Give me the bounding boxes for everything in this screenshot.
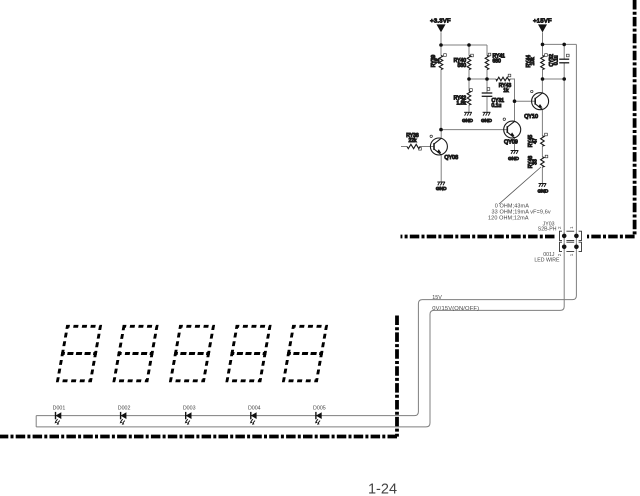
- board outline border right vertical: [633, 0, 637, 237]
- wire CY32 stubs: [563, 44, 565, 59]
- wire CY31 stubs: [486, 79, 488, 93]
- wire +3.3V rail: [441, 44, 487, 46]
- wire QY08 collector: [440, 130, 442, 139]
- svg-text:GND: GND: [462, 118, 473, 124]
- svg-text:+15VF: +15VF: [533, 19, 552, 25]
- board outline border mid vertical: [395, 316, 399, 437]
- power +15VF: [533, 19, 552, 33]
- node dot CY32 bottom: [562, 77, 566, 81]
- wire LED bus left edge: [35, 416, 37, 427]
- callout text resistor options: [488, 203, 551, 221]
- svg-text:D001: D001: [53, 406, 66, 412]
- wire RY40 stubs: [468, 45, 470, 56]
- ground below QY08: [436, 182, 447, 192]
- ground below CY31: [481, 112, 492, 124]
- diode D005: [313, 406, 326, 425]
- display digit 1: [58, 326, 101, 381]
- display digit 5: [284, 326, 327, 381]
- svg-text:33: 33: [532, 159, 538, 165]
- wire +15V rail: [543, 43, 577, 45]
- resistor RY44: [526, 54, 547, 70]
- seven-segment displays: [58, 326, 327, 381]
- svg-text:1: 1: [569, 226, 574, 229]
- pin 1 001J: [574, 245, 579, 250]
- diode D004: [248, 406, 261, 425]
- svg-text:47: 47: [532, 138, 538, 144]
- svg-text:560: 560: [458, 63, 467, 69]
- wire QY10 emitter chain: [541, 109, 543, 136]
- LED diodes row: [53, 406, 326, 425]
- resistor RY43: [496, 74, 511, 94]
- connector 001J: [534, 240, 581, 263]
- wire pin1 to 15V run: [36, 236, 576, 416]
- pin 2 JY03: [562, 234, 567, 239]
- resistor RY42: [454, 89, 473, 107]
- wire RY39 top stub: [440, 45, 442, 56]
- display digit 4: [227, 326, 270, 381]
- svg-text:1k: 1k: [503, 88, 509, 94]
- callout line for RY46 options: [499, 167, 541, 204]
- svg-text:QY10: QY10: [524, 114, 538, 120]
- wire QY10 collector: [541, 79, 543, 93]
- node dot 15V rail / CY32: [562, 43, 566, 47]
- node dot QY10 collector rail: [541, 77, 545, 81]
- pin 1 JY03: [574, 234, 579, 239]
- wire QY09 emitter to ground: [514, 138, 516, 151]
- svg-text:0V/15V(ON/OFF): 0V/15V(ON/OFF): [432, 306, 479, 312]
- board outline border bottom horizontal: [0, 435, 397, 439]
- diode D003: [183, 406, 196, 425]
- node dot 3.3V rail / RY39: [439, 43, 443, 47]
- svg-text:GND: GND: [508, 156, 519, 162]
- wire rail B: [469, 78, 496, 80]
- board outline border horizontal right of connector: [587, 235, 635, 239]
- transistor QY09: [503, 118, 521, 145]
- wire QY10 base: [515, 100, 536, 102]
- svg-text:D004: D004: [248, 406, 261, 412]
- wire RY44 stubs: [542, 44, 544, 55]
- svg-text:1: 1: [569, 253, 574, 256]
- svg-text:0.1u: 0.1u: [492, 103, 502, 109]
- junction dots: [439, 43, 566, 132]
- node dot C QY10 base: [513, 99, 517, 103]
- svg-text:680: 680: [493, 58, 502, 64]
- svg-text:QY09: QY09: [504, 139, 518, 145]
- diode D001: [53, 406, 66, 425]
- resistor RY40: [454, 54, 474, 69]
- resistor RY39: [431, 54, 447, 70]
- wire RY43 right, down to node C: [510, 79, 515, 121]
- transistor QY10: [524, 90, 548, 120]
- svg-text:D002: D002: [118, 406, 131, 412]
- resistor RY38: [406, 133, 421, 150]
- svg-text:2: 2: [557, 226, 562, 229]
- connector JY03: [538, 221, 582, 242]
- svg-text:1k: 1k: [435, 58, 441, 64]
- node dot 15V rail / RY44: [541, 43, 545, 47]
- resistor RY45: [528, 133, 547, 147]
- svg-text:15V: 15V: [432, 295, 442, 301]
- svg-text:D003: D003: [183, 406, 196, 412]
- wire RY39 bottom to node B: [440, 70, 442, 130]
- display digit 3: [171, 326, 214, 381]
- node dot rail B / CY31: [485, 77, 489, 81]
- wire node B to QY09 base: [441, 129, 507, 131]
- node dot rail B / RY42: [467, 77, 471, 81]
- ground below RY42: [462, 112, 473, 124]
- wire RY42 stubs: [468, 79, 470, 91]
- wire +15VF stem: [542, 32, 544, 44]
- svg-text:S2B-PH: S2B-PH: [538, 227, 557, 233]
- wire pin2 to 0V run: [36, 236, 564, 427]
- capacitor CY31: [482, 88, 505, 109]
- wire pin2 long vertical from node D to connector: [563, 79, 565, 236]
- svg-text:1-24: 1-24: [368, 482, 397, 496]
- wire pin1 long vertical from +15V rail to connector: [575, 44, 577, 236]
- capacitor CY32: [549, 54, 569, 67]
- svg-text:10k: 10k: [530, 57, 536, 66]
- ground below RY46: [538, 184, 549, 195]
- wire QY08 emitter to ground: [440, 155, 442, 182]
- svg-text:1.8k: 1.8k: [457, 101, 467, 107]
- diode D002: [118, 406, 131, 425]
- wire +3.3VF stem: [440, 32, 442, 45]
- svg-text:D005: D005: [313, 406, 326, 412]
- ground below QY09: [508, 151, 519, 162]
- wire QY10 collector node rail: [543, 78, 565, 80]
- display digit 2: [114, 326, 157, 381]
- svg-text:2: 2: [557, 253, 562, 256]
- svg-text:GND: GND: [481, 118, 492, 124]
- resistor RY46: [528, 155, 548, 168]
- wire RY41 stubs: [486, 45, 488, 56]
- resistor RY41: [485, 53, 505, 69]
- svg-text:GND: GND: [436, 186, 447, 192]
- node dot B QY09 base: [439, 128, 443, 132]
- wire RY38 to QY08 base: [420, 146, 435, 148]
- svg-text:120 OHM;12mA: 120 OHM;12mA: [488, 215, 529, 221]
- transistor QY08: [430, 135, 458, 161]
- svg-text:LED WIRE: LED WIRE: [534, 258, 560, 264]
- svg-text:QY08: QY08: [444, 155, 458, 161]
- wire RY38 left stub: [401, 146, 407, 148]
- board outline border horizontal left of connector: [401, 235, 555, 239]
- pin 2 001J: [562, 245, 567, 250]
- svg-text:+3.3VF: +3.3VF: [430, 19, 451, 25]
- svg-text:GND: GND: [538, 189, 549, 195]
- svg-text:22k: 22k: [408, 138, 417, 144]
- svg-text:0.1u: 0.1u: [553, 55, 559, 65]
- power +3.3VF: [430, 19, 451, 33]
- node dot 3.3V rail / RY40: [467, 43, 471, 47]
